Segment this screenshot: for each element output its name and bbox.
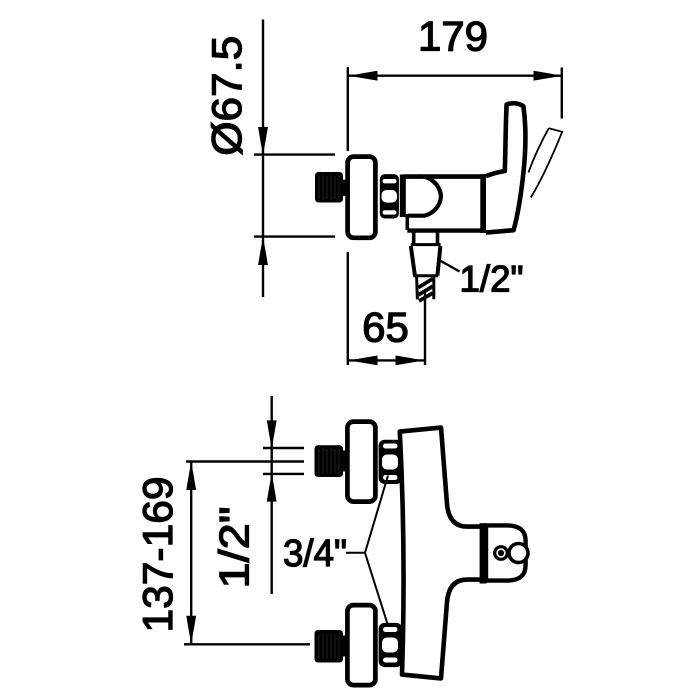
svg-text:179: 179	[418, 13, 488, 60]
svg-text:3/4": 3/4"	[283, 533, 347, 575]
svg-text:65: 65	[362, 304, 409, 351]
svg-text:1/2": 1/2"	[211, 507, 258, 589]
svg-text:1/2": 1/2"	[460, 259, 524, 300]
svg-text:137-169: 137-169	[134, 477, 181, 633]
svg-text:Ø67.5: Ø67.5	[203, 36, 250, 156]
